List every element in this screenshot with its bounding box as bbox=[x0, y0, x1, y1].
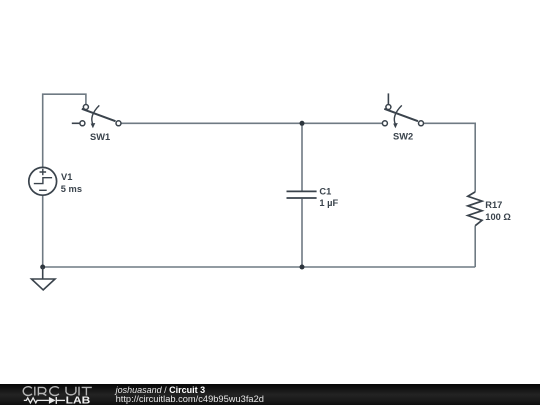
footer bar bbox=[0, 384, 540, 405]
svg-text:R17: R17 bbox=[485, 200, 502, 210]
svg-text:C1: C1 bbox=[319, 187, 331, 197]
voltage source V1 bbox=[29, 167, 57, 195]
logo CIRCUIT bbox=[23, 387, 92, 396]
svg-text:V1: V1 bbox=[61, 172, 72, 182]
wire C1 bottom to bottom rail bbox=[301, 199, 303, 267]
label V1 bbox=[61, 172, 82, 194]
svg-text:1 µF: 1 µF bbox=[319, 198, 338, 208]
logo resistor-diode glyph bbox=[24, 397, 65, 404]
node A junction C1 top bbox=[300, 121, 305, 126]
wire V1 top to SW1 top throw bbox=[43, 94, 86, 167]
wire bottom rail bbox=[43, 266, 476, 268]
label SW2 bbox=[393, 132, 413, 142]
svg-text:http://circuitlab.com/c49b95wu: http://circuitlab.com/c49b95wu3fa2d bbox=[116, 394, 264, 404]
resistor R17 bbox=[468, 192, 482, 226]
label R17 bbox=[485, 200, 511, 222]
wire node A to C1 top bbox=[301, 123, 303, 190]
node B junction C1 bottom bbox=[300, 265, 305, 270]
wire SW1 common to SW2 left throw bbox=[121, 122, 382, 124]
node ground junction bbox=[40, 265, 45, 270]
svg-text:100 Ω: 100 Ω bbox=[485, 212, 511, 222]
ground bbox=[32, 267, 56, 290]
label SW1 bbox=[90, 132, 110, 142]
svg-text:SW1: SW1 bbox=[90, 132, 110, 142]
wire V1 bottom to ground node bbox=[42, 195, 44, 267]
wire R17 bottom to bottom rail bbox=[474, 226, 476, 267]
svg-text:LAB: LAB bbox=[66, 395, 91, 405]
switch SW2 bbox=[382, 93, 423, 128]
label C1 bbox=[319, 187, 338, 208]
capacitor C1 bbox=[287, 191, 317, 198]
svg-text:SW2: SW2 bbox=[393, 132, 413, 142]
switch SW1 bbox=[72, 105, 121, 129]
wire SW2 common to R17 top bbox=[423, 123, 475, 192]
svg-text:5 ms: 5 ms bbox=[61, 184, 82, 194]
